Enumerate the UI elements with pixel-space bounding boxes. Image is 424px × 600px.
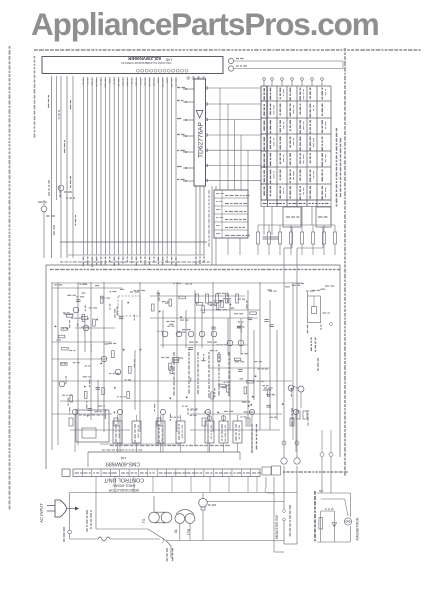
svg-text:SEMICONDUCTOR: SEMICONDUCTOR xyxy=(108,488,139,492)
key pad K2 xyxy=(316,207,331,227)
matrix column wires xyxy=(209,88,248,265)
hv transformer wires xyxy=(274,466,297,552)
hv feed wires xyxy=(320,430,333,493)
output component row xyxy=(113,415,242,452)
vertical branch x96 xyxy=(95,493,97,530)
keyboard label xyxy=(337,128,341,207)
rotated labels under transistors xyxy=(174,352,229,398)
top rail xyxy=(70,492,297,494)
terminal rings xyxy=(282,441,299,445)
wire from display pin 3 xyxy=(56,76,58,200)
svg-text:AppliancePartsPros.com: AppliancePartsPros.com xyxy=(31,6,379,42)
terminal circle T2 xyxy=(294,458,300,464)
vacuum fluorescent display box xyxy=(42,56,223,74)
strip drop wires xyxy=(96,477,257,493)
svg-text:MONITOR SW: MONITOR SW xyxy=(275,515,279,539)
lamp feed drop xyxy=(342,61,344,69)
lower box left edge xyxy=(45,265,47,469)
svg-text:VACUUM FLUORESCENT DISPLAY: VACUUM FLUORESCENT DISPLAY xyxy=(121,61,172,65)
magnetron circuit box xyxy=(315,491,351,542)
svg-text:MAGNETRON: MAGNETRON xyxy=(356,517,360,540)
fine print left column xyxy=(9,46,11,509)
fuse holder wire xyxy=(68,493,72,540)
keyboard drop labels xyxy=(252,424,257,453)
mid rail xyxy=(96,528,148,530)
transistor row xyxy=(59,307,294,391)
dashed box IC2 xyxy=(118,296,140,316)
AC plug xyxy=(47,500,79,517)
svg-text:TD62776AP: TD62776AP xyxy=(198,121,205,158)
left pin labels xyxy=(49,95,76,235)
reset transistor Q20 xyxy=(38,200,55,258)
svg-text:CONTROL UNIT: CONTROL UNIT xyxy=(103,477,144,483)
resistor band xyxy=(257,225,337,255)
svg-text:TTB: TTB xyxy=(187,528,191,535)
model option table xyxy=(214,190,250,238)
capacitor pair band xyxy=(263,237,279,239)
analog section horizontal wires xyxy=(52,283,302,444)
left lower wire xyxy=(70,537,160,541)
model box drop wires xyxy=(228,238,240,255)
svg-text:AC INPUT: AC INPUT xyxy=(39,503,44,523)
key pad K1 xyxy=(283,207,301,227)
fan motor OL TTB xyxy=(174,510,195,541)
interlock wires xyxy=(148,529,284,558)
reset transistor Q21 xyxy=(58,185,75,258)
matrix drop wires xyxy=(264,207,331,236)
thermistor label xyxy=(87,510,91,532)
terminal strip xyxy=(62,466,281,477)
wire from display pin 1 xyxy=(51,76,53,258)
terminal circle T1 xyxy=(281,458,287,464)
buzzer circuit xyxy=(306,291,333,333)
fine print bottom segment xyxy=(283,471,348,473)
turntable motor TS xyxy=(142,496,172,523)
driver row xyxy=(69,409,299,452)
matrix top pin stubs xyxy=(263,78,324,86)
analog section vertical wires xyxy=(52,282,277,450)
matrix bottom header row xyxy=(261,200,331,207)
svg-text:62LZWVN06ER: 62LZWVN06ER xyxy=(127,56,161,61)
power supply box xyxy=(76,410,230,446)
fine print right column xyxy=(344,48,346,476)
monitor switch wire xyxy=(265,477,274,552)
svg-text:Ltd.: Ltd. xyxy=(120,456,126,460)
IC left pins xyxy=(177,88,194,182)
resistor row top xyxy=(196,294,239,303)
svg-text:A4611-60SAU: A4611-60SAU xyxy=(112,484,135,488)
junction dots xyxy=(55,302,293,417)
buzzer transistor Q30 xyxy=(293,282,304,440)
display pins into IC top xyxy=(187,77,206,80)
control pcb title xyxy=(106,456,140,467)
fine print top line xyxy=(34,49,421,51)
small parts analog xyxy=(58,296,273,410)
hv label xyxy=(289,505,291,536)
lower box right edge xyxy=(339,265,341,457)
interlock label xyxy=(167,548,173,561)
svg-text:L4D: L4D xyxy=(165,57,172,61)
photocoupler cluster xyxy=(292,408,308,426)
keyboard matrix grid xyxy=(261,86,331,200)
pilot lamp P2 xyxy=(228,66,343,71)
wire from display pin 4 xyxy=(72,76,74,258)
control pcb outline xyxy=(88,452,240,467)
pilot lamp P1 xyxy=(228,58,343,63)
driver IC TD62776AP xyxy=(194,79,206,186)
wire from display pin 3b xyxy=(60,76,62,185)
display wire bus xyxy=(83,77,176,267)
magnetron tube xyxy=(344,518,351,525)
FUSE label xyxy=(63,527,65,542)
control unit title xyxy=(103,477,144,493)
wires below IC xyxy=(196,186,204,265)
pcb edge connector line xyxy=(46,262,340,270)
key drop wires xyxy=(284,227,323,458)
wire from display pin 2 xyxy=(66,76,68,258)
motor MB xyxy=(199,493,284,541)
resonator label xyxy=(311,338,315,352)
heater pipe label xyxy=(317,358,319,371)
bus end rail xyxy=(68,254,205,256)
fine print inner left column xyxy=(34,56,36,138)
IC right pin wires xyxy=(206,87,262,181)
misc micro labels analog xyxy=(54,284,334,422)
svg-text:OL: OL xyxy=(174,529,178,534)
svg-text:CMS-60W/689: CMS-60W/689 xyxy=(106,461,140,467)
svg-text:TS: TS xyxy=(142,518,146,523)
circled pin numbers in display box xyxy=(136,69,188,72)
bus crossing wire xyxy=(60,241,207,243)
